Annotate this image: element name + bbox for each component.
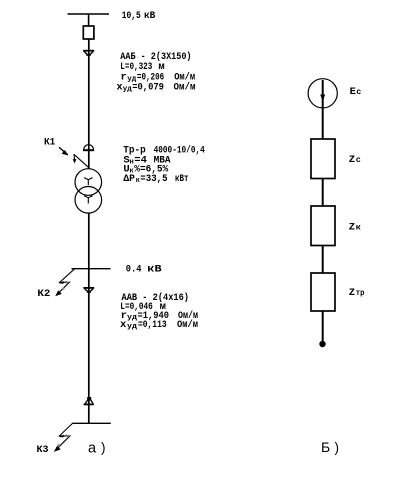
svg-text:=33,5: =33,5 [140,173,167,185]
svg-text:х: х [120,319,127,331]
cable termination (down funnel) top [83,51,94,56]
wire transformer to 0.4 bus [88,213,90,269]
label Б) [321,439,339,455]
svg-text:К3: К3 [37,444,49,456]
bus 10.5 kV [68,13,110,15]
cable termination (dome) above transformer [83,145,94,151]
svg-text:Z: Z [349,154,355,166]
transformer data label [123,144,205,184]
bus bottom [72,422,111,424]
wire Zc to Zk [322,179,324,207]
svg-text:0.4: 0.4 [126,264,142,276]
transformer T1 (two circles) [75,169,102,213]
impedance Zc (box) [311,139,335,179]
svg-text:К2: К2 [37,288,50,300]
svg-text:а: а [88,441,97,457]
impedance Ztr (box) [311,273,335,311]
svg-text:Е: Е [350,86,356,98]
svg-text:ΔР: ΔР [123,173,134,185]
svg-text:Z: Z [349,221,355,233]
svg-text:тр: тр [356,288,365,298]
short-circuit arrow K3 [54,423,73,452]
svg-text:кВ: кВ [144,10,156,22]
svg-text:кВт: кВт [175,173,189,185]
svg-text:): ) [101,440,106,455]
label a) [88,440,106,457]
wire breaker to transformer [88,39,90,169]
svg-text:к: к [356,222,361,232]
svg-text:): ) [335,440,340,455]
node (filled dot) [319,341,325,347]
svg-text:уд: уд [127,323,138,331]
short-circuit arrow K2 [55,269,74,296]
svg-text:Z: Z [349,287,355,299]
svg-text:с: с [356,155,361,165]
breaker (square) [83,26,94,39]
label 10,5 кВ [122,10,156,22]
svg-text:Ом/м: Ом/м [177,319,198,331]
wire bus to breaker [88,14,90,27]
svg-text:=0,079: =0,079 [132,82,164,94]
svg-text:Ом/м: Ом/м [174,82,196,94]
EMF source Ec (circle with arrow) [308,79,337,140]
cable data label 1 [116,51,195,93]
cable termination (up triangle) bottom [84,397,94,404]
label Ec [350,86,362,98]
svg-text:Б: Б [321,439,330,455]
svg-text:К1: К1 [44,137,55,149]
wire Ztr to node [322,311,324,342]
wire 0.4 bus down [88,269,90,424]
impedance Zk (box) [311,206,335,246]
svg-text:уд: уд [123,86,133,94]
label Zk [349,221,361,233]
label Ztr [349,287,365,299]
svg-text:с: с [356,87,361,97]
short-circuit arrow K1 [59,147,88,167]
svg-text:10,5: 10,5 [122,10,141,22]
svg-text:=0,113: =0,113 [138,319,167,331]
cable data label 2 [120,292,198,331]
cable termination (down funnel) below 0.4 bus [83,288,94,293]
bus 0.4 kV [72,268,111,270]
wire Zk to Ztr [322,246,324,274]
svg-text:уд: уд [127,314,138,322]
svg-text:кВ: кВ [147,264,162,276]
label Zc [349,154,361,166]
label 0.4 кВ [126,264,163,276]
svg-text:н: н [130,158,134,166]
